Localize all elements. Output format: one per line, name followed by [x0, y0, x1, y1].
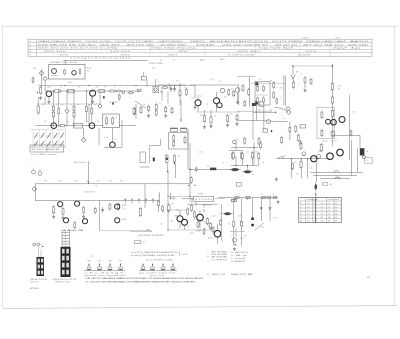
svg-text:+: + — [222, 220, 223, 222]
svg-text:22k: 22k — [258, 110, 261, 112]
svg-text:S2: S2 — [160, 60, 162, 62]
svg-text:1.1: 1.1 — [328, 203, 331, 205]
diamond node D6 — [286, 110, 291, 115]
svg-text:(3.2): (3.2) — [338, 85, 342, 87]
ground G1 — [39, 96, 42, 100]
connector block CN2 (dark) — [37, 257, 45, 276]
resistor R59 — [210, 222, 212, 230]
resistor R53 — [168, 203, 170, 212]
svg-text:AA119: AA119 — [350, 40, 371, 43]
svg-text:T3: T3 — [300, 210, 302, 212]
IF transformer box F1 — [68, 89, 74, 93]
svg-text:u3: u3 — [29, 48, 31, 50]
parts table left column line — [36, 39, 38, 56]
svg-text:2SB56 OA90 OA91: 2SB56 OA90 OA91 — [306, 40, 348, 43]
svg-text:(9): (9) — [221, 241, 224, 243]
svg-text:5k: 5k — [294, 162, 296, 164]
svg-text:THE CIRCUIT HAS BEEN DRAWN: THE CIRCUIT HAS BEEN DRAWN IN POSITION A… — [85, 277, 204, 280]
svg-text:1k: 1k — [187, 226, 189, 228]
svg-text:22k: 22k — [214, 116, 217, 118]
voltage table verticals — [305, 198, 307, 223]
svg-text:2SB56: 2SB56 — [122, 219, 127, 221]
top mid extra comps — [293, 81, 295, 89]
wire corner to H6 — [359, 135, 361, 148]
resistor R46 — [331, 95, 333, 104]
svg-text:MIXER OSC 455kc: MIXER OSC 455kc — [50, 62, 78, 64]
curved wire to diamond — [274, 108, 287, 112]
svg-text:AF116: AF116 — [200, 58, 205, 61]
svg-text:2k2: 2k2 — [109, 181, 112, 183]
bus node diamond D7 — [32, 187, 37, 192]
wire bus1 to bus2 — [34, 184, 36, 201]
electrolytic CE2 — [242, 170, 253, 173]
svg-text:1k2: 1k2 — [87, 71, 90, 73]
svg-text:TAPE OUT: TAPE OUT — [212, 273, 227, 276]
dark mark — [271, 130, 272, 132]
wire path left of K3 — [159, 139, 161, 145]
amp junction dots — [167, 209, 168, 210]
diamond node D1 — [39, 71, 44, 76]
chain resistor R5 — [108, 90, 115, 92]
svg-text:470: 470 — [97, 121, 100, 123]
ground G7 — [276, 200, 279, 204]
electrolytic CE4 — [222, 212, 233, 215]
svg-text:2SA49 2SA101 2SA102: 2SA49 2SA101 2SA102 — [38, 40, 84, 43]
resistor R69 — [74, 221, 76, 229]
inductor bump L1 — [279, 157, 285, 159]
circle C3 — [266, 120, 270, 124]
transistor T5 — [51, 123, 57, 129]
wire V18 — [144, 184, 146, 208]
svg-text:2p2 1p: 2p2 1p — [332, 48, 360, 50]
FM resistor R20 — [161, 87, 168, 89]
svg-text:(0.65): (0.65) — [87, 68, 92, 70]
diamond node D2 — [43, 76, 47, 80]
top cluster verticals — [248, 76, 250, 107]
agc wires down — [235, 156, 237, 166]
resistor R3b inside box — [79, 68, 81, 75]
stub wire — [230, 230, 245, 232]
inter-row wires — [52, 91, 54, 106]
inductor bump L3 — [335, 177, 341, 179]
FM wire V6 — [238, 85, 240, 105]
resistor R38 — [252, 151, 254, 159]
IF transformer box F2 — [99, 90, 105, 93]
mid small resistors — [140, 106, 142, 114]
resistor R67 — [109, 203, 111, 211]
circle C6 — [302, 152, 306, 156]
transistor T17 — [177, 216, 183, 222]
electrolytic CE1 — [229, 168, 241, 171]
junction dot J1 — [189, 169, 191, 171]
svg-text:pos. AM shown: pos. AM shown — [31, 153, 57, 156]
transistor T9b — [217, 103, 222, 108]
K12 dark cores — [255, 82, 258, 85]
FM grounds — [209, 124, 212, 128]
svg-text:75: 75 — [300, 74, 302, 76]
diode DD3 — [260, 208, 262, 210]
nested wires — [310, 172, 363, 174]
svg-text:2SB75: 2SB75 — [190, 41, 206, 43]
svg-text:MW: MW — [88, 261, 91, 263]
svg-text:x: x — [231, 235, 232, 237]
svg-text:1: 1 — [31, 160, 32, 162]
svg-text:100n 47n 22n 10n 4n7 2n2 1n 47: 100n 47n 22n 10n 4n7 2n2 1n 470p — [38, 48, 118, 50]
wire V2 — [135, 104, 137, 119]
switch B symbol 4 — [172, 263, 174, 267]
tuning gang arrows upper — [34, 133, 38, 138]
svg-text:1k: 1k — [200, 96, 202, 98]
FM wire V5 — [179, 83, 181, 105]
svg-text:500mW: 500mW — [198, 194, 204, 196]
antenna symbol — [291, 75, 295, 80]
wire node to chain — [44, 80, 46, 91]
svg-text:1k 680 560: 1k 680 560 — [160, 44, 188, 46]
volume control block (dark) — [210, 168, 216, 171]
transistor T16 — [337, 149, 344, 156]
top cluster top line — [237, 75, 256, 77]
FM resistor R24 — [233, 90, 235, 98]
amp left vertical — [167, 172, 169, 230]
switch diagram A baseline — [84, 269, 125, 271]
svg-text:r: r — [120, 87, 121, 89]
svg-text:5%: 5% — [60, 55, 69, 57]
svg-text:x: x — [306, 73, 307, 75]
svg-text:9V: 9V — [228, 224, 231, 226]
svg-text:AE: AE — [296, 71, 298, 74]
svg-text:4k7 2k2 1k8 1k2: 4k7 2k2 1k8 1k2 — [303, 44, 345, 46]
svg-text:30p: 30p — [176, 81, 179, 83]
transistor T20 — [214, 230, 221, 237]
svg-text:voltages: voltages — [307, 198, 318, 201]
svg-text:(2V): (2V) — [240, 238, 244, 240]
resistor R31 — [173, 154, 175, 163]
transistor T24 — [82, 219, 87, 224]
diode DD4 — [269, 208, 271, 210]
ground G6 — [275, 177, 278, 181]
svg-text:1n: 1n — [283, 118, 285, 120]
mid extra comps — [148, 105, 150, 113]
comps above — [244, 100, 246, 107]
sheet top edge — [2, 25, 397, 27]
wire V9 — [167, 164, 169, 173]
svg-text:220p 100p 47p 22p: 220p 100p 47p 22p — [151, 48, 196, 50]
svg-text:(1.4): (1.4) — [211, 79, 215, 81]
sub resistor — [118, 93, 120, 100]
parts table column separators — [149, 39, 151, 56]
tuning gang sections — [32, 130, 34, 148]
wire H8 — [251, 83, 286, 85]
svg-text:FM 87.5-104MHz: FM 87.5-104MHz — [149, 63, 163, 65]
circle C2 — [233, 140, 237, 144]
svg-text:10n: 10n — [143, 104, 146, 106]
svg-text:10k: 10k — [74, 181, 77, 183]
svg-text:AF116 AF117 AF125 OC170: AF116 AF117 AF125 OC170 — [210, 40, 270, 43]
svg-text:68: 68 — [231, 89, 233, 91]
svg-text:0.8: 0.8 — [314, 220, 317, 222]
top cluster box K12 — [255, 81, 270, 105]
bus2 corner at right — [159, 192, 161, 201]
svg-text:5.8: 5.8 — [321, 220, 324, 222]
ladder above connector — [61, 230, 63, 248]
wire V14 — [252, 106, 254, 140]
FM resistor R21 — [179, 89, 181, 97]
AGC rail — [36, 103, 100, 105]
FM wire V7 — [194, 85, 196, 99]
svg-text:1.4: 1.4 — [307, 206, 310, 208]
svg-text:pu radio tape ext: pu radio tape ext — [139, 272, 177, 275]
small label box — [323, 183, 328, 186]
thermistor dark box — [360, 148, 365, 155]
wire chain to T7 — [104, 146, 122, 148]
shield box K9 — [317, 108, 335, 139]
svg-text:47n: 47n — [97, 181, 100, 183]
chain circle C7 — [122, 91, 125, 94]
parts table row lines — [28, 42, 372, 44]
connector pin P1 — [251, 218, 254, 221]
svg-text:OA79 B250: OA79 B250 — [158, 40, 184, 43]
svg-text:455: 455 — [44, 121, 47, 123]
svg-text:3k3 2k2 1k5: 3k3 2k2 1k5 — [126, 44, 156, 46]
center vertical bus — [189, 143, 191, 196]
transistor T7 — [110, 142, 116, 148]
marks — [350, 129, 352, 136]
diamond node D3 — [65, 109, 69, 113]
amp more comps — [158, 200, 160, 208]
supply bus dots — [65, 85, 66, 86]
svg-text:osc: osc — [248, 80, 251, 82]
svg-text:AERIAL SOCKET: AERIAL SOCKET — [31, 278, 48, 281]
svg-text:470 330: 470 330 — [196, 44, 216, 46]
bottom rail — [100, 230, 152, 232]
svg-text:10k: 10k — [283, 156, 286, 158]
resistor R66 — [94, 207, 96, 214]
FM transistor T9 — [214, 98, 220, 104]
svg-text:2p: 2p — [168, 84, 170, 86]
svg-text:5.7: 5.7 — [321, 213, 324, 215]
ground G8 — [233, 247, 236, 251]
FM transistor T8 — [195, 100, 201, 106]
svg-text:2SB56: 2SB56 — [174, 216, 179, 218]
dark blob under chain1 — [103, 96, 105, 98]
FM wire H1 — [158, 84, 186, 86]
junction dots chain2 — [53, 125, 54, 126]
svg-text:T4: T4 — [300, 213, 302, 215]
feedback vertical — [99, 201, 101, 231]
voltage table horizontals — [299, 200, 342, 202]
wire V3 — [83, 128, 85, 138]
svg-text:1.3: 1.3 — [328, 210, 331, 212]
wire H4 — [253, 112, 275, 114]
svg-text:4k7: 4k7 — [246, 152, 249, 154]
svg-text:8k2: 8k2 — [42, 104, 45, 106]
svg-text:0.7: 0.7 — [335, 220, 338, 222]
junction dots chain1 — [53, 90, 54, 91]
wire V19 — [285, 76, 287, 106]
FM ground G4 — [193, 105, 196, 109]
svg-text:0.5Ω: 0.5Ω — [212, 216, 216, 218]
svg-text:1.6: 1.6 — [328, 217, 331, 219]
chain resistor R7 — [127, 92, 134, 94]
svg-text:AC132: AC132 — [208, 237, 213, 240]
svg-text:aer: aer — [146, 86, 149, 88]
svg-text:}: } — [179, 251, 181, 256]
right chain vertical — [331, 64, 333, 146]
wire H9 — [237, 110, 272, 112]
svg-text:T5: T5 — [300, 217, 302, 219]
parts table frame — [28, 39, 372, 56]
svg-text:0.5: 0.5 — [314, 210, 317, 212]
svg-text:S3: S3 — [173, 60, 175, 62]
svg-text:TAPE: TAPE — [248, 273, 254, 276]
svg-text:82: 82 — [160, 92, 162, 94]
transistor T21 — [58, 202, 63, 207]
diodes in K3 — [173, 134, 175, 142]
circle under thermistor — [363, 156, 366, 159]
svg-text:1k: 1k — [61, 87, 63, 89]
resistor R65 — [83, 206, 85, 214]
svg-text:det: det — [236, 138, 239, 141]
svg-text:AM SIGNAL: AM SIGNAL — [212, 250, 228, 253]
svg-text:(EXT): (EXT) — [31, 281, 40, 283]
svg-text:0.7: 0.7 — [314, 217, 317, 219]
svg-text:AF117: AF117 — [220, 58, 225, 61]
svg-text:(0.2): (0.2) — [274, 218, 278, 220]
svg-text:(1.3): (1.3) — [309, 168, 313, 170]
small box K4 — [140, 152, 145, 163]
probe transistor symbol — [233, 238, 237, 242]
transistor T26 — [115, 218, 120, 223]
resistor R61 — [233, 220, 235, 228]
bias resistors R10 R11 — [52, 105, 54, 113]
svg-text:AC127: AC127 — [323, 140, 328, 143]
svg-text:(6): (6) — [178, 156, 181, 158]
transistor T12 — [331, 119, 337, 125]
resistor R42 — [295, 125, 297, 133]
voltage table frame — [299, 198, 342, 223]
svg-text:(0.2): (0.2) — [152, 68, 156, 70]
resistor R4 — [53, 90, 62, 92]
tuning gang arrows lower — [34, 141, 38, 146]
svg-text:10%: 10% — [120, 55, 131, 57]
FM box small — [141, 76, 146, 80]
tick with dot — [170, 193, 172, 199]
bus boxes — [235, 196, 239, 198]
svg-text:aerial osc band sel: aerial osc band sel — [84, 275, 128, 277]
svg-text:4k7: 4k7 — [353, 112, 356, 114]
svg-text:47: 47 — [261, 194, 263, 196]
detector output line — [190, 168, 232, 170]
svg-text:AF 250mV: AF 250mV — [74, 161, 88, 164]
left column extra — [32, 76, 34, 83]
sheet left edge — [2, 26, 4, 308]
box K6 — [260, 102, 264, 107]
FM resistor R25 — [203, 114, 205, 123]
svg-text:130: 130 — [366, 151, 369, 153]
svg-text:T2: T2 — [300, 206, 302, 208]
svg-text:220: 220 — [191, 98, 194, 100]
connector pin P2 — [251, 224, 254, 227]
arrow wire V8 — [180, 100, 182, 122]
FM left wires — [146, 80, 148, 86]
svg-text:x: x — [158, 82, 159, 84]
supply bus mid — [38, 85, 195, 87]
svg-text:6.2: 6.2 — [321, 203, 324, 205]
svg-text:0.6: 0.6 — [335, 206, 338, 208]
svg-text:2k2: 2k2 — [96, 87, 99, 89]
resistor R70 — [139, 207, 141, 217]
transistor T6 — [89, 123, 95, 129]
svg-text:1k: 1k — [273, 194, 275, 196]
left of K12 comps — [235, 88, 239, 92]
right verticals — [220, 204, 222, 240]
box K8 — [300, 125, 306, 128]
transistor T19 — [197, 214, 204, 221]
svg-text:currents: currents — [328, 198, 339, 201]
resistor R37 — [242, 152, 244, 160]
svg-text:5k6 4k7: 5k6 4k7 — [100, 44, 123, 46]
capacitor CC1 — [101, 207, 104, 213]
svg-text:455kc: 455kc — [68, 82, 72, 84]
svg-text:+: + — [240, 160, 241, 162]
svg-text:(V): (V) — [143, 242, 146, 244]
resistor R17 — [59, 125, 67, 127]
svg-text:b (mV) SIGNAL LEVELS AT: b (mV) SIGNAL LEVELS AT — [131, 254, 177, 257]
svg-text:10n: 10n — [230, 114, 233, 116]
wire V13 — [253, 142, 255, 165]
wire V17 — [357, 148, 359, 172]
svg-text:0.8: 0.8 — [314, 206, 317, 208]
svg-text:fm: fm — [270, 80, 272, 82]
svg-text:→: → — [207, 258, 209, 261]
svg-text:0.5W: 0.5W — [298, 55, 311, 57]
svg-text:25µ: 25µ — [241, 226, 244, 228]
oscillator box K1 — [49, 65, 86, 80]
svg-text:5: 5 — [256, 225, 257, 227]
chain top dot — [332, 65, 334, 67]
wire V12 — [235, 143, 237, 151]
svg-text:47: 47 — [193, 220, 195, 222]
marks under center — [188, 185, 189, 186]
resistor R33 — [232, 151, 234, 159]
ground under T3 — [48, 97, 50, 100]
svg-text:log: log — [207, 165, 209, 167]
second vertical — [349, 95, 351, 160]
svg-text:1n: 1n — [240, 90, 242, 92]
resistor R3 inside box — [64, 69, 66, 76]
svg-text:8µ: 8µ — [252, 174, 254, 176]
labelled box K11 — [365, 158, 372, 163]
svg-text:vol: vol — [95, 185, 98, 187]
small box K7 — [263, 129, 268, 132]
svg-text:1.1: 1.1 — [307, 210, 310, 212]
resistor R48 — [321, 110, 323, 119]
wire det to CE3 — [315, 159, 317, 182]
box comp K10 — [331, 131, 334, 136]
output bus — [218, 197, 278, 199]
sheet right edge — [394, 26, 396, 306]
svg-text:10.7: 10.7 — [219, 81, 222, 83]
svg-text:6.1: 6.1 — [321, 217, 324, 219]
wire long vertical V1 — [88, 104, 90, 126]
resistor R45 — [331, 82, 333, 91]
transistor T2 — [72, 71, 76, 75]
wire V10 — [174, 163, 176, 178]
svg-text:+: + — [230, 209, 231, 211]
svg-text:s: s — [126, 87, 127, 89]
bus line 1 — [35, 183, 190, 185]
jack J2 — [38, 172, 42, 176]
